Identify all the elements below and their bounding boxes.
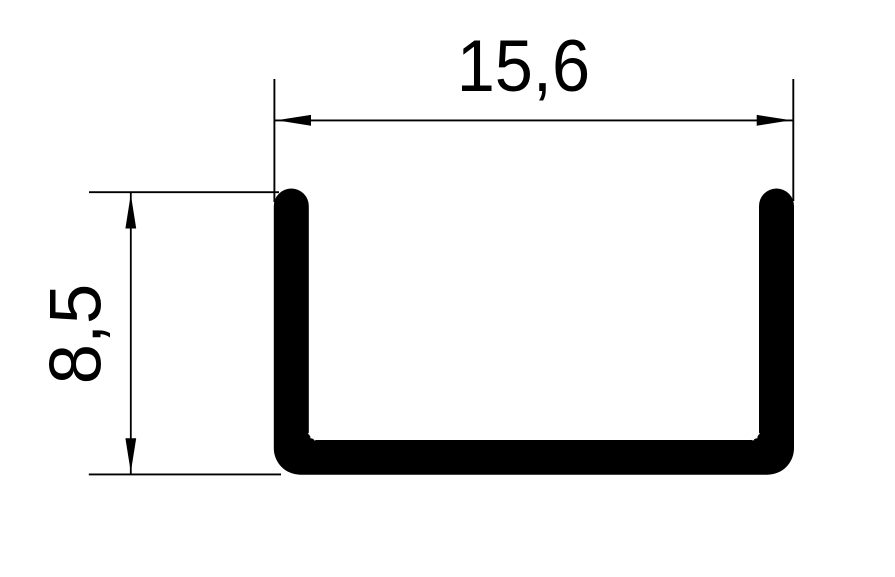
svg-text:15,6: 15,6 (457, 26, 590, 107)
U-channel profile cross-section (solid black) (274, 189, 794, 475)
extension line bottom (for 8,5) (89, 473, 281, 475)
white speckles on right inner fillet (758, 433, 760, 435)
extension line left (for 15,6) (273, 79, 275, 202)
arrowhead bottom of 8,5 (125, 438, 136, 472)
extension line top (for 8,5) (89, 191, 279, 193)
svg-text:8,5: 8,5 (35, 284, 116, 385)
arrowhead left of 15,6 (277, 115, 312, 126)
arrowhead right of 15,6 (757, 115, 792, 126)
white speckles on left inner fillet (308, 433, 310, 435)
dimension line 8,5 (130, 192, 132, 474)
arrowhead top of 8,5 (125, 194, 136, 228)
dimension line 15,6 (274, 119, 793, 121)
extension line right (for 15,6) (792, 79, 794, 201)
